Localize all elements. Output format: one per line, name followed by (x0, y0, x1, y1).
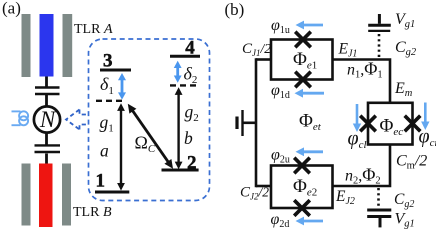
gate capacitor top plates (368, 24, 391, 27)
TLR B right ground plane bar (62, 164, 71, 226)
ground capacitor stub (244, 122, 257, 125)
svg-text:1: 1 (96, 171, 106, 192)
flux coil (light blue) (12, 111, 29, 125)
capacitor (TLR A coupling) (35, 86, 60, 88)
SQUID loop 2 (271, 166, 333, 209)
TLR A center conductor (blue) (40, 14, 54, 77)
g2/b vertical double arrow (175, 87, 183, 169)
dashed blue arrow (box to qubit) (66, 110, 89, 130)
svg-text:TLR B: TLR B (73, 205, 112, 220)
TLR B left ground plane bar (22, 164, 31, 226)
level 4 line (170, 55, 200, 58)
TLR B center conductor (red) (39, 164, 53, 228)
TLR A left ground plane bar (22, 14, 31, 77)
wire from TLR A to capacitor (45, 77, 48, 88)
junction X top of loop 1 (295, 32, 311, 48)
SQUID loop 1 (271, 40, 333, 80)
left bus wire (255, 58, 258, 187)
wire loop1 to node n1 (332, 60, 390, 104)
level 2 line (162, 169, 199, 172)
delta1 arrow (blue) (118, 73, 126, 100)
svg-text:TLR A: TLR A (74, 22, 113, 37)
svg-text:(b): (b) (225, 0, 245, 19)
g1/a vertical double arrow (117, 103, 125, 190)
arrow phi_2d (light blue) (296, 217, 324, 226)
level 1 line (95, 191, 129, 194)
wire loop1 to left bus (256, 58, 272, 61)
dashed level below 3 (96, 100, 125, 102)
TLR A right ground plane bar (63, 14, 73, 77)
svg-text:2: 2 (187, 153, 197, 174)
svg-text:N: N (39, 107, 57, 132)
arrow phi_2u (light blue) (296, 147, 324, 156)
junction X right of coupler (405, 116, 421, 132)
junction X bottom of loop 2 (294, 200, 310, 216)
wire capacitor to qubit circle (45, 95, 48, 107)
gate capacitor bottom plates (367, 209, 391, 212)
junction X left of coupler (360, 116, 376, 132)
stub above top capacitor (378, 14, 381, 24)
arrow phi_cr (light blue, down) (421, 103, 429, 131)
ground capacitor right plate (241, 110, 243, 136)
wire bus to loop2 (256, 185, 272, 188)
arrow phi_cl (light blue, down) (353, 104, 361, 132)
svg-text:(a): (a) (2, 0, 21, 18)
gate capacitor top (Cg2) dotted connection (378, 34, 381, 58)
junction X top of loop 2 (294, 158, 310, 174)
dashed level-diagram box (89, 39, 210, 201)
arrow phi_1d (light blue) (295, 89, 325, 98)
svg-text:3: 3 (103, 51, 113, 72)
capacitor (TLR B coupling) (35, 144, 61, 146)
coupler loop (Phi_ec) (368, 103, 413, 145)
wire circle to lower capacitor (45, 132, 48, 145)
dashed level below 4 (170, 84, 198, 86)
wire capacitor to TLR B (45, 154, 48, 166)
stub below bottom capacitor (379, 218, 382, 227)
junction X bottom of loop 1 (295, 72, 311, 88)
level 3 line (100, 69, 131, 72)
qubit N circle (34, 106, 60, 132)
Omega_c diagonal double arrow (128, 104, 173, 169)
wire coupler to node n2 (332, 145, 390, 187)
ground capacitor left plate (235, 117, 238, 130)
svg-text:a: a (100, 141, 109, 161)
svg-text:b: b (184, 128, 193, 148)
delta2 arrow (blue) (174, 61, 182, 83)
svg-text:n1,Φ1: n1,Φ1 (347, 59, 383, 81)
gate capacitor bottom (Cg2) dotted connection (377, 188, 380, 207)
svg-text:4: 4 (185, 38, 195, 59)
svg-text:n2,Φ2: n2,Φ2 (345, 165, 381, 187)
arrow phi_1u (light blue) (296, 21, 324, 30)
